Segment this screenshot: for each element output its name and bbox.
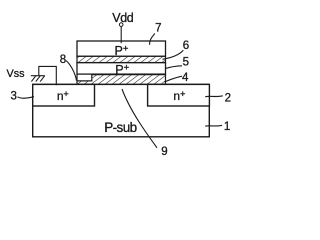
leader 6 bbox=[163, 50, 184, 59]
n+ region 2 (right) bbox=[148, 84, 210, 106]
leader 1 bbox=[205, 124, 222, 127]
leader 9 bbox=[122, 89, 157, 148]
svg-text:9: 9 bbox=[161, 146, 167, 158]
Vdd wire bbox=[120, 26, 122, 43]
leader 5 bbox=[166, 66, 182, 69]
stack left edge lower segment bbox=[76, 74, 78, 81]
svg-text:6: 6 bbox=[183, 40, 189, 52]
svg-text:P-sub: P-sub bbox=[104, 120, 136, 135]
ground symbol bbox=[31, 76, 45, 82]
P+ layer 5 box bbox=[77, 63, 166, 75]
leader 8 bbox=[66, 61, 77, 81]
n+ region 3 (left) bbox=[33, 84, 95, 106]
insulator layer 6 (hatched) bbox=[77, 56, 166, 62]
svg-text:3: 3 bbox=[10, 91, 16, 103]
svg-text:5: 5 bbox=[183, 57, 189, 69]
Vdd terminal circle bbox=[119, 23, 123, 27]
svg-text:Vss: Vss bbox=[7, 68, 26, 80]
svg-text:Vdd: Vdd bbox=[112, 11, 133, 25]
svg-text:8: 8 bbox=[60, 54, 66, 66]
substrate P-sub region 1 bbox=[33, 84, 210, 136]
leader 2 bbox=[205, 96, 223, 97]
svg-text:4: 4 bbox=[182, 72, 189, 84]
top electrode box 7 bbox=[77, 41, 166, 56]
leader 3 bbox=[18, 97, 35, 99]
leader 7 bbox=[150, 34, 155, 45]
leader 4 bbox=[165, 76, 183, 82]
svg-text:2: 2 bbox=[225, 92, 231, 104]
Vss wire bbox=[39, 66, 57, 85]
svg-text:7: 7 bbox=[155, 23, 161, 35]
gate insulator layer 4 (hatched, stepped) bbox=[77, 75, 166, 85]
svg-text:1: 1 bbox=[224, 121, 230, 133]
